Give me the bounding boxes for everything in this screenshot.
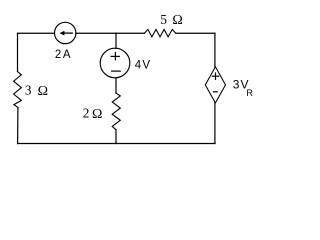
svg-text:3: 3 [233,78,240,92]
svg-text:A: A [63,49,71,61]
svg-text:4: 4 [135,60,142,72]
svg-text:5: 5 [160,12,167,27]
svg-text:V: V [142,60,150,72]
svg-text:2: 2 [55,49,61,61]
svg-text:Ω: Ω [172,13,182,28]
svg-text:R: R [246,88,253,98]
svg-text:Ω: Ω [92,107,102,122]
svg-text:2: 2 [83,105,90,120]
svg-text:3: 3 [25,83,32,98]
svg-text:Ω: Ω [38,84,48,99]
